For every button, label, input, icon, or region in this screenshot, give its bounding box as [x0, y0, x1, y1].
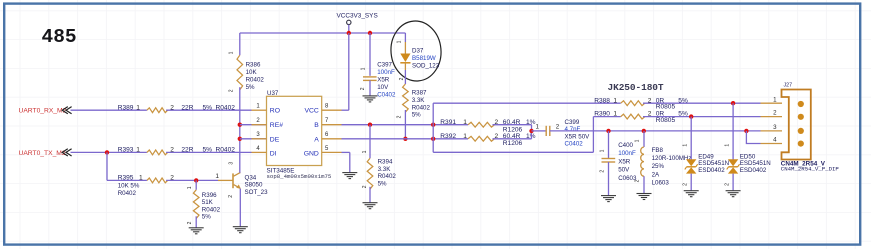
wire ED49 to ground [690, 174, 692, 191]
wire ED50 to ground [732, 174, 734, 191]
wire TX to R393 [71, 151, 147, 153]
svg-text:2: 2 [683, 183, 689, 186]
svg-text:R396: R396 [202, 192, 217, 199]
svg-text:4: 4 [773, 137, 777, 144]
wire RX to R389 [71, 109, 147, 111]
svg-text:2: 2 [600, 170, 606, 173]
svg-text:DE: DE [270, 136, 280, 143]
svg-text:GND: GND [304, 150, 319, 157]
ground U37 pin5 [342, 173, 357, 179]
svg-text:R388: R388 [594, 97, 610, 104]
svg-text:1: 1 [136, 147, 140, 154]
svg-text:2A: 2A [652, 171, 660, 178]
ground R396 [189, 228, 204, 234]
wire loop right riser [592, 117, 594, 153]
svg-text:2: 2 [187, 221, 193, 224]
svg-text:sop8_4m00x5m00x1m75: sop8_4m00x5m00x1m75 [267, 173, 332, 180]
svg-text:3: 3 [228, 162, 234, 165]
wire R386 to Q34 collector [239, 87, 241, 172]
svg-text:5%: 5% [412, 112, 421, 119]
svg-text:3.3K: 3.3K [378, 166, 392, 173]
wire R391 out [493, 124, 532, 126]
wire TX drop to R395 [106, 152, 108, 180]
svg-text:B: B [314, 122, 319, 129]
svg-text:R390: R390 [594, 111, 610, 118]
ground ED50 [726, 191, 741, 197]
junction B/R394 [368, 123, 372, 127]
junction RE# node [238, 123, 242, 127]
svg-text:1: 1 [360, 67, 366, 70]
svg-text:C399: C399 [565, 119, 580, 126]
wire R390 to connector pin2 [643, 116, 761, 118]
svg-text:1: 1 [536, 123, 540, 130]
svg-text:2: 2 [399, 77, 405, 80]
junction VCC/pin8 riser [347, 31, 351, 35]
connector J27 pin contacts [798, 101, 804, 107]
wire D37 to R387 [404, 70, 406, 84]
svg-text:J27: J27 [784, 83, 793, 89]
wire C400 drop [608, 131, 610, 158]
svg-text:A: A [314, 136, 319, 143]
svg-text:1: 1 [136, 104, 140, 111]
wire R392 out [493, 138, 532, 140]
wire R387 to A line [404, 110, 406, 139]
junction common/C400 [606, 129, 610, 133]
wire R396 to ground [195, 216, 197, 227]
svg-text:3: 3 [773, 124, 777, 131]
svg-text:C397: C397 [377, 62, 392, 69]
svg-text:UART0_RX_M2: UART0_RX_M2 [19, 108, 67, 115]
svg-text:50V: 50V [618, 167, 630, 174]
U37 pin 2 stub [240, 124, 267, 126]
wire common line to connector pin3 [550, 130, 761, 132]
wire pin1 row [433, 102, 621, 104]
svg-text:C400: C400 [618, 142, 633, 149]
wire R389 to RO pin1 [166, 109, 251, 111]
svg-text:51K: 51K [202, 199, 214, 206]
wire A line [342, 138, 469, 140]
svg-text:1: 1 [463, 119, 467, 126]
wire B line [342, 124, 469, 126]
U37 pin 5 stub GND [322, 151, 342, 153]
junction R395/R396 [194, 178, 198, 182]
U37 pin 3 stub [240, 138, 267, 140]
wire Q34 emitter to ground [239, 189, 241, 227]
ground C400 [601, 196, 616, 202]
ground Q34 [233, 227, 248, 233]
resistor R386 10K [237, 55, 243, 90]
U37 pin 1 stub [252, 109, 267, 111]
svg-text:C0402: C0402 [565, 141, 584, 148]
wire join to C399 [532, 130, 547, 132]
svg-text:1: 1 [362, 150, 368, 153]
svg-text:5%: 5% [246, 84, 255, 91]
wire pin2 row [593, 116, 620, 118]
svg-text:R393: R393 [118, 147, 134, 154]
svg-text:R0805: R0805 [656, 104, 676, 111]
wire C397 to ground [369, 80, 371, 95]
svg-text:2: 2 [396, 115, 402, 118]
svg-text:R0402: R0402 [202, 206, 221, 213]
wire B/A join [531, 125, 533, 139]
junction join node [529, 129, 533, 133]
svg-text:L0603: L0603 [652, 180, 670, 187]
wire bus drop to C397 [369, 33, 371, 76]
svg-text:SOD_123: SOD_123 [412, 63, 440, 70]
svg-text:R0402: R0402 [118, 190, 137, 197]
svg-text:SOT_23: SOT_23 [245, 189, 269, 196]
svg-text:R392: R392 [440, 133, 456, 140]
svg-text:2: 2 [362, 185, 368, 188]
svg-text:U37: U37 [267, 90, 279, 97]
svg-text:2: 2 [228, 89, 234, 92]
junction B/loop [431, 123, 435, 127]
svg-text:2: 2 [773, 110, 777, 117]
svg-text:3.3K: 3.3K [412, 97, 426, 104]
ground FB8 [637, 194, 652, 200]
capacitor C399 4.7nF [545, 126, 547, 136]
svg-text:JK250-180T: JK250-180T [608, 82, 664, 93]
wire loop left vertical [432, 103, 434, 152]
junction common/FB8 [642, 129, 646, 133]
annotation ellipse around D37 [388, 19, 443, 83]
svg-text:10K: 10K [246, 69, 258, 76]
svg-text:25%: 25% [652, 163, 665, 170]
svg-text:R389: R389 [118, 104, 134, 111]
svg-text:1: 1 [215, 173, 219, 180]
svg-text:RE#: RE# [270, 122, 283, 129]
junction R387/A [403, 137, 407, 141]
svg-text:VCC3V3_SYS: VCC3V3_SYS [337, 13, 378, 20]
svg-text:10K 5%: 10K 5% [118, 183, 140, 190]
wire ED50 drop [732, 103, 734, 160]
svg-text:2: 2 [724, 183, 730, 186]
svg-text:120R-100MHz: 120R-100MHz [652, 155, 692, 162]
U37 pin 8 stub VCC [322, 109, 342, 111]
svg-text:X5R: X5R [377, 77, 390, 84]
svg-text:R0402: R0402 [378, 173, 397, 180]
svg-text:100nF: 100nF [618, 150, 636, 157]
diode D37 B5819W [404, 42, 406, 54]
svg-text:1: 1 [600, 149, 606, 152]
junction A/loop [431, 137, 435, 141]
svg-text:B5819W: B5819W [412, 55, 436, 62]
svg-text:FB8: FB8 [652, 147, 664, 154]
svg-text:485: 485 [42, 26, 77, 48]
junction common/pin4 branch [744, 129, 748, 133]
op-amp U37 SIT3485E body [267, 96, 322, 165]
U37 pin 6 stub A [322, 138, 342, 140]
svg-text:UART0_TX_M2: UART0_TX_M2 [19, 150, 66, 157]
wire pin4 branch [746, 131, 760, 144]
wire bus drop to R386 [239, 33, 241, 55]
junction pin1/ED50 [731, 101, 735, 105]
wire FB8 drop [643, 131, 645, 147]
svg-text:Q34: Q34 [245, 174, 257, 181]
wire C400 to ground [608, 162, 610, 195]
ground ED49 [684, 191, 699, 197]
wire bus drop to D37 [404, 33, 406, 42]
svg-text:R387: R387 [412, 90, 427, 97]
junction TX/R395 tap [105, 150, 109, 154]
svg-text:2: 2 [556, 123, 560, 130]
wire pin5 to ground [349, 152, 351, 172]
svg-text:CN4M_2R54_V_P_DIP: CN4M_2R54_V_P_DIP [781, 166, 840, 173]
svg-text:R0402: R0402 [246, 76, 265, 83]
wire VCC bus [240, 32, 406, 34]
svg-text:4.7nF: 4.7nF [565, 126, 581, 133]
wire R393 to DI pin4 [166, 151, 251, 153]
wire R395 row [107, 179, 147, 181]
svg-text:1: 1 [463, 133, 467, 140]
svg-text:S8050: S8050 [245, 182, 263, 189]
svg-text:1: 1 [187, 186, 193, 189]
svg-text:VCC: VCC [304, 108, 318, 115]
svg-text:R394: R394 [378, 159, 393, 166]
junction C397 tap [368, 31, 372, 35]
ground R394 [363, 203, 378, 209]
wire loop bottom [433, 151, 593, 153]
svg-text:DI: DI [270, 150, 277, 157]
svg-text:R391: R391 [440, 119, 456, 126]
resistor R387 3.3K [403, 84, 409, 112]
wire R394 to ground [369, 187, 371, 203]
wire pin8 riser to bus [348, 33, 350, 110]
resistor R396 51K [195, 180, 197, 189]
svg-text:D37: D37 [412, 47, 424, 54]
svg-text:R0402: R0402 [412, 104, 431, 111]
svg-text:2: 2 [360, 87, 366, 90]
U37 pin 4 stub [252, 151, 267, 153]
svg-text:ESD0402: ESD0402 [698, 167, 725, 174]
svg-text:C0402: C0402 [377, 92, 396, 99]
connector J27 pin stubs [761, 102, 783, 104]
wire FB8 to ground [643, 176, 645, 193]
wire ED49 drop [690, 117, 692, 160]
svg-text:1: 1 [683, 144, 689, 147]
ground C397 [363, 96, 378, 102]
svg-text:R386: R386 [246, 61, 261, 68]
svg-text:1: 1 [228, 51, 234, 54]
wire R394 riser [369, 125, 371, 159]
svg-text:2: 2 [228, 195, 234, 198]
svg-text:5%: 5% [202, 214, 211, 221]
svg-text:R1206: R1206 [503, 140, 523, 147]
svg-text:1: 1 [397, 40, 403, 43]
svg-text:R0805: R0805 [656, 117, 676, 124]
svg-text:1: 1 [724, 144, 730, 147]
svg-text:1: 1 [613, 97, 617, 104]
svg-text:5%: 5% [378, 180, 387, 187]
svg-text:RO: RO [270, 108, 280, 115]
wire R388 to connector pin1 [643, 102, 761, 104]
svg-text:1: 1 [613, 111, 617, 118]
svg-text:10V: 10V [377, 84, 389, 91]
svg-text:X5R 50V: X5R 50V [565, 133, 591, 140]
svg-text:ESD0402: ESD0402 [740, 167, 767, 174]
junction DE node [238, 137, 242, 141]
svg-text:X5R: X5R [618, 158, 631, 165]
svg-text:1: 1 [773, 96, 777, 103]
junction pin2/ED49 [689, 114, 693, 118]
U37 pin 7 stub B [322, 124, 342, 126]
svg-text:100nF: 100nF [377, 69, 395, 76]
svg-text:2: 2 [634, 179, 640, 182]
svg-text:1: 1 [634, 139, 640, 142]
